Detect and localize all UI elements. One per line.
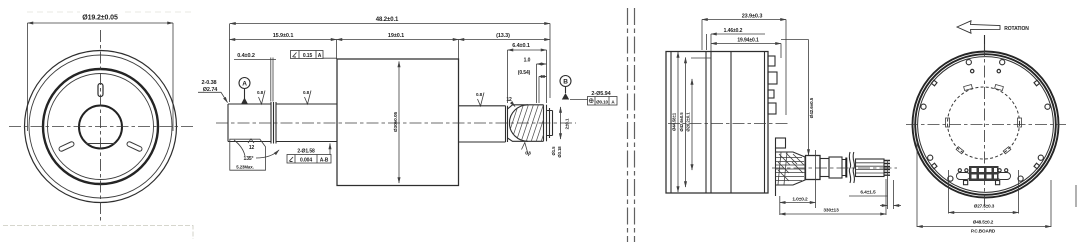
- datum B triangle: [562, 93, 569, 100]
- svg-text:0.8: 0.8: [303, 90, 310, 95]
- hole left: [921, 104, 926, 109]
- worm hatch: [505, 100, 555, 145]
- svg-text:A-B: A-B: [320, 158, 329, 164]
- groove lines: [271, 102, 276, 144]
- center hole: [79, 106, 122, 149]
- dimension line Ø19.2: [28, 22, 174, 24]
- horizontal centerline: [9, 126, 193, 128]
- thin neck: [842, 160, 846, 176]
- svg-text:0.8: 0.8: [525, 151, 531, 156]
- worm outline: [508, 105, 547, 142]
- svg-text:19±0.1: 19±0.1: [388, 33, 404, 39]
- svg-text:Ø28.2±0.1: Ø28.2±0.1: [686, 112, 691, 132]
- svg-text:2-0.38: 2-0.38: [202, 80, 217, 86]
- slot left: [58, 141, 74, 152]
- svg-text:6.4±0.1: 6.4±0.1: [512, 43, 530, 49]
- thick ring circle: [43, 69, 158, 184]
- datum A triangle: [241, 98, 248, 105]
- leader 2-Ø1.58: [329, 144, 331, 155]
- divider line 2: [634, 8, 636, 242]
- svg-text:1.46±0.2: 1.46±0.2: [724, 28, 743, 34]
- datum A stem: [244, 89, 246, 100]
- svg-text:P.C.BOARD: P.C.BOARD: [971, 229, 996, 234]
- gearbox plate: [775, 148, 777, 196]
- can joint line 1: [705, 52, 707, 194]
- slot right: [126, 141, 142, 152]
- datum B circle: [560, 76, 571, 87]
- outer circle: [25, 51, 177, 203]
- roughness mark 3: [478, 93, 485, 107]
- frame position Ø0.10: [588, 97, 618, 106]
- center hole flat chord: [86, 143, 116, 145]
- leader Ø2.74: [198, 92, 228, 102]
- svg-text:B: B: [563, 79, 568, 86]
- shaft section3: [459, 106, 508, 142]
- svg-text:1.0±0.2: 1.0±0.2: [792, 197, 808, 203]
- break curve 2: [853, 152, 854, 183]
- svg-text:Ø27.5±0.3: Ø27.5±0.3: [974, 204, 995, 209]
- roughness mark under worm: [522, 143, 529, 157]
- dashed PCB circle: [948, 87, 1020, 159]
- svg-text:2±0.1: 2±0.1: [565, 118, 570, 129]
- svg-text:Ø1.5: Ø1.5: [551, 146, 556, 156]
- horizontal centerline: [906, 124, 1066, 126]
- dim line 48.2: [230, 23, 550, 25]
- svg-text:0.004: 0.004: [300, 158, 312, 164]
- hole lower-right: [1038, 155, 1043, 160]
- svg-text:19.94±0.1: 19.94±0.1: [737, 38, 759, 44]
- vertical centerline: [984, 44, 986, 210]
- outer circle 3: [918, 57, 1054, 193]
- pcb tab lower-left: [956, 147, 964, 154]
- worm cylinder: [806, 156, 821, 180]
- worm nose arc: [509, 105, 528, 142]
- terminal tab 1: [768, 56, 775, 66]
- arrow stem to circle: [984, 35, 986, 51]
- dim 2±0.1 vertical: [560, 107, 562, 139]
- extension line x458: [458, 40, 460, 60]
- dim line Ø44.58: [677, 52, 679, 192]
- break curve 1: [849, 152, 850, 183]
- terminal tab 3: [768, 90, 774, 98]
- extension line x231: [229, 24, 231, 103]
- connector bottom squares: [964, 181, 968, 185]
- inner circle: [48, 74, 154, 180]
- dim line row2 a: [230, 39, 337, 41]
- small step top: [691, 57, 711, 59]
- outer circle: [913, 52, 1059, 198]
- svg-text:5.23Max.: 5.23Max.: [236, 164, 254, 169]
- inner small hole left: [971, 69, 974, 72]
- terminal tab 2: [768, 72, 777, 84]
- svg-text:12: 12: [249, 145, 255, 151]
- hole lower-left: [928, 155, 933, 160]
- extension line right: [172, 23, 174, 131]
- svg-text:6.4±1.5: 6.4±1.5: [860, 190, 876, 196]
- dim line row2 c: [459, 39, 551, 41]
- connector left slot: [957, 173, 971, 180]
- outer circle 2: [915, 54, 1056, 195]
- svg-text:0.8: 0.8: [476, 92, 483, 97]
- pcb tab left: [946, 118, 950, 127]
- terminal tab 5: [776, 138, 786, 148]
- svg-text:23.9±0.3: 23.9±0.3: [742, 14, 763, 20]
- hole top-left: [966, 60, 971, 65]
- nut section: [829, 157, 842, 178]
- dim line Ø28.2: [691, 79, 693, 170]
- svg-text:Ø48.5±0.2: Ø48.5±0.2: [973, 220, 994, 225]
- dim line Ø42.6: [685, 58, 687, 188]
- svg-text:2-Ø5.94: 2-Ø5.94: [591, 91, 611, 97]
- svg-text:48.2±0.1: 48.2±0.1: [376, 17, 399, 23]
- hole top-right: [1000, 60, 1005, 65]
- connector center block: [969, 166, 999, 181]
- worm tip step: [547, 108, 553, 138]
- dark tip lines: [884, 161, 890, 176]
- extension line x336: [336, 40, 338, 60]
- pcb tab top-left: [964, 85, 973, 91]
- dim line row2 b: [337, 39, 459, 41]
- shaft section1: [228, 104, 271, 142]
- hole right: [1045, 104, 1050, 109]
- vertical centerline: [100, 30, 102, 221]
- svg-text:0.4±0.2: 0.4±0.2: [237, 53, 255, 59]
- inner small hole right: [997, 69, 1000, 72]
- svg-text:Ø42.6±0.5: Ø42.6±0.5: [679, 112, 684, 132]
- keyway slot top: [98, 84, 103, 97]
- svg-text:(0.54): (0.54): [518, 70, 531, 76]
- svg-text:ROTATION: ROTATION: [1004, 26, 1029, 32]
- connector circles: [958, 169, 961, 172]
- rotation arrow: [957, 21, 1000, 33]
- roughness mark 1: [259, 91, 266, 105]
- svg-text:0.15: 0.15: [303, 53, 313, 59]
- hole bottom-left: [948, 176, 953, 181]
- dim line right Ø42.6: [781, 39, 809, 41]
- motor diameter dim: [398, 62, 400, 184]
- pcb tab lower-right: [1003, 147, 1011, 154]
- shaft centerline: [772, 167, 897, 169]
- gearbox ribbed cone: [776, 152, 806, 185]
- motor body rectangle: [337, 59, 459, 186]
- svg-text:(13.3): (13.3): [496, 33, 510, 39]
- faint scan dashes top: [27, 11, 193, 13]
- endbell line: [730, 52, 732, 194]
- svg-text:Ø30±0.05: Ø30±0.05: [393, 111, 399, 132]
- square tab upper-right: [1034, 80, 1040, 86]
- svg-text:15.9±0.1: 15.9±0.1: [273, 33, 294, 39]
- motor can outline: [666, 52, 768, 194]
- square tab lower-left: [931, 163, 937, 169]
- faint scan edge bottom: [3, 226, 193, 240]
- runout feature frame: [291, 51, 324, 60]
- second circle: [29, 55, 172, 198]
- dim Ø48.5±0.2: [916, 142, 918, 227]
- can inner vertical 1: [670, 52, 672, 194]
- connector right slot: [997, 173, 1011, 180]
- svg-text:2-Ø1.58: 2-Ø1.58: [297, 149, 315, 155]
- chamfer detail callout box: [230, 139, 279, 170]
- middle centerline: [216, 122, 576, 124]
- svg-text:Ø3.18: Ø3.18: [557, 146, 562, 158]
- dark ring bar: [845, 158, 847, 178]
- collar: [820, 159, 829, 177]
- motor centerline: [668, 123, 790, 125]
- datum B stem: [565, 87, 567, 94]
- frame 0.004 A-B: [287, 155, 331, 164]
- leader line B: [570, 99, 588, 101]
- extension line x550: [549, 24, 551, 99]
- svg-text:330±13: 330±13: [823, 208, 839, 214]
- pcb tab top-right: [995, 85, 1004, 91]
- roughness mark 2: [305, 91, 312, 105]
- shaft section2: [276, 104, 337, 142]
- leader 0.4 groove: [234, 58, 337, 102]
- datum A circle: [239, 78, 250, 89]
- svg-text:A: A: [242, 81, 247, 88]
- far right tick: [1075, 185, 1077, 207]
- pcb tab right: [1018, 118, 1022, 127]
- long shaft with lines: [856, 159, 885, 177]
- svg-text:Ø19.2±0.05: Ø19.2±0.05: [82, 15, 118, 22]
- right face inner line: [764, 52, 766, 194]
- svg-text:Ø44.58±1: Ø44.58±1: [672, 112, 677, 131]
- dim Ø27.5±0.3: [948, 170, 950, 214]
- extension line left: [27, 23, 29, 131]
- svg-text:Ø0.10: Ø0.10: [596, 99, 608, 104]
- svg-text:Ø42.6±0.5: Ø42.6±0.5: [809, 97, 814, 118]
- divider line 1: [627, 8, 629, 242]
- dim 330±13: [885, 179, 887, 215]
- terminal tab 4: [768, 103, 776, 114]
- svg-text:135°: 135°: [244, 156, 254, 162]
- svg-text:A: A: [318, 53, 322, 59]
- square tab lower-right: [1034, 163, 1040, 169]
- can joint line 2: [710, 52, 712, 194]
- hole bottom-right: [1018, 176, 1023, 181]
- svg-text:1.0: 1.0: [524, 58, 531, 64]
- svg-text:0.8: 0.8: [257, 90, 264, 95]
- square tab upper-left: [931, 80, 937, 86]
- dim 10±0.2: [779, 196, 781, 215]
